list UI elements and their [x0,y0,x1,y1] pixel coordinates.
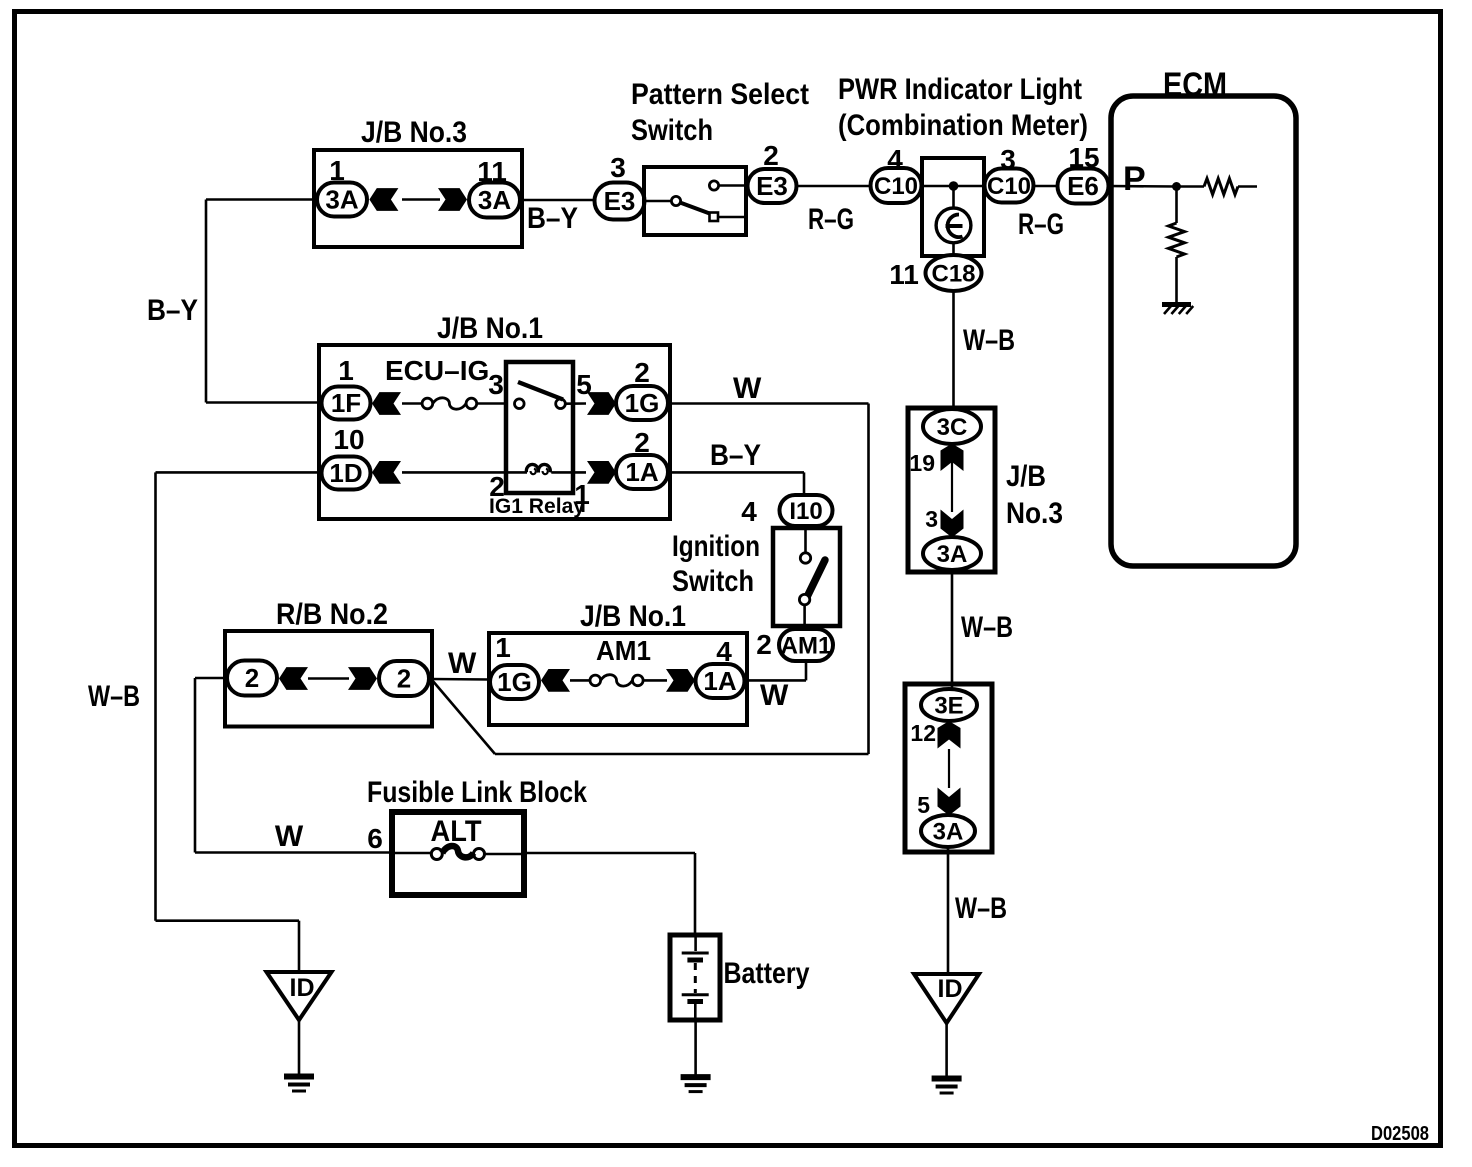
svg-text:2: 2 [634,427,650,458]
svg-text:12: 12 [910,720,936,746]
svg-text:W–B: W–B [963,324,1015,357]
svg-text:3A: 3A [478,185,511,215]
svg-text:W: W [448,647,477,680]
svg-text:W–B: W–B [955,892,1007,925]
svg-text:2: 2 [756,629,772,660]
svg-text:AM1: AM1 [596,635,651,666]
svg-text:W–B: W–B [961,611,1013,644]
svg-text:ID: ID [290,974,315,1002]
svg-text:Pattern Select: Pattern Select [631,78,809,111]
svg-text:1: 1 [329,155,345,186]
svg-text:Ignition: Ignition [672,530,760,563]
svg-text:2: 2 [763,140,779,171]
svg-text:5: 5 [917,792,930,818]
svg-text:J/B No.3: J/B No.3 [361,116,467,149]
svg-text:W: W [760,679,789,712]
svg-text:R–G: R–G [808,203,854,236]
svg-text:PWR Indicator Light: PWR Indicator Light [838,73,1082,106]
svg-text:ID: ID [938,975,963,1003]
svg-text:1: 1 [495,632,511,663]
svg-text:Battery: Battery [724,957,810,990]
svg-text:J/B: J/B [1006,460,1046,493]
svg-text:D02508: D02508 [1371,1123,1429,1145]
svg-text:3: 3 [925,506,938,532]
svg-text:3C: 3C [937,414,968,441]
svg-text:P: P [1123,160,1146,198]
svg-text:2: 2 [245,663,259,693]
svg-text:Switch: Switch [631,114,713,147]
svg-text:2: 2 [397,664,411,694]
svg-text:C10: C10 [987,173,1031,200]
svg-text:4: 4 [716,636,732,667]
svg-text:ECU–IG: ECU–IG [385,355,489,386]
svg-text:3: 3 [488,369,504,400]
svg-text:4: 4 [741,496,757,527]
svg-text:ALT: ALT [431,815,482,848]
svg-text:J/B No.1: J/B No.1 [580,600,686,633]
svg-text:3: 3 [610,152,626,183]
svg-text:AM1: AM1 [781,632,832,659]
svg-text:W–B: W–B [88,680,140,713]
svg-text:1A: 1A [625,457,658,487]
svg-text:1G: 1G [625,388,660,418]
svg-text:10: 10 [333,424,364,455]
svg-text:W: W [275,820,304,853]
svg-text:1D: 1D [329,458,362,488]
svg-text:11: 11 [889,259,919,290]
svg-text:2: 2 [634,357,650,388]
svg-text:3A: 3A [937,541,968,568]
svg-text:3A: 3A [933,818,964,845]
svg-text:R–G: R–G [1018,208,1064,241]
svg-text:1A: 1A [703,666,736,696]
svg-text:19: 19 [909,450,935,476]
svg-text:C18: C18 [931,260,975,287]
svg-text:3E: 3E [934,692,963,719]
svg-text:I10: I10 [789,498,822,525]
svg-text:Fusible Link Block: Fusible Link Block [367,776,587,809]
svg-text:3A: 3A [325,185,358,215]
svg-text:6: 6 [367,823,383,854]
svg-text:Switch: Switch [672,565,754,598]
svg-text:R/B No.2: R/B No.2 [276,598,388,631]
svg-text:11: 11 [477,156,507,187]
svg-text:E3: E3 [756,171,788,201]
svg-text:C10: C10 [874,173,918,200]
svg-text:E6: E6 [1067,171,1099,201]
svg-text:1: 1 [338,355,354,386]
svg-text:(Combination Meter): (Combination Meter) [838,109,1088,142]
svg-text:No.3: No.3 [1006,497,1063,530]
svg-text:1F: 1F [331,388,361,418]
svg-text:W: W [733,372,762,405]
svg-text:IG1 Relay: IG1 Relay [489,495,585,518]
svg-text:J/B No.1: J/B No.1 [437,312,543,345]
svg-text:B–Y: B–Y [710,439,761,472]
svg-text:B–Y: B–Y [527,202,578,235]
svg-text:E3: E3 [604,186,636,216]
svg-text:1G: 1G [497,667,532,697]
svg-text:B–Y: B–Y [147,294,198,327]
